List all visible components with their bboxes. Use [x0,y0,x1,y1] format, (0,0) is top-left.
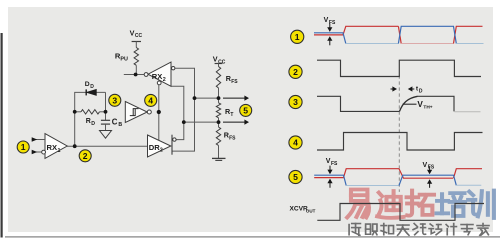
svg-text:C: C [112,117,118,126]
svg-text:4: 4 [293,138,298,148]
svg-text:4: 4 [148,96,153,106]
svg-text:FS: FS [231,79,238,85]
svg-text:DR: DR [149,143,160,152]
svg-text:D: D [90,84,94,90]
svg-text:R: R [86,118,91,125]
svg-text:RX: RX [152,72,163,81]
svg-text:2: 2 [293,67,298,77]
svg-text:5: 5 [243,106,248,116]
svg-text:D: D [85,81,90,88]
svg-text:TH+: TH+ [423,104,432,110]
svg-text:T: T [230,112,233,118]
svg-text:FS: FS [331,161,338,167]
svg-text:2: 2 [163,77,166,83]
svg-text:CC: CC [135,33,143,39]
svg-text:D: D [91,121,95,127]
svg-text:B: B [118,122,122,128]
svg-text:2: 2 [83,151,88,161]
svg-text:FS: FS [229,135,236,141]
svg-text:1: 1 [295,32,300,42]
svg-text:PU: PU [120,57,128,63]
svg-text:3: 3 [293,97,298,107]
svg-text:V: V [130,28,135,37]
svg-text:RX: RX [47,143,58,152]
svg-text:OUT: OUT [306,208,316,213]
svg-text:1: 1 [21,142,26,152]
svg-text:V: V [213,55,218,64]
svg-text:V: V [324,17,329,24]
svg-text:2: 2 [160,148,163,154]
svg-text:V: V [326,158,331,165]
svg-text:3: 3 [112,95,117,105]
svg-text:CC: CC [218,59,226,65]
svg-text:1: 1 [58,148,61,154]
svg-text:D: D [419,88,423,94]
svg-text:5: 5 [293,172,298,182]
svg-text:V: V [423,162,428,169]
